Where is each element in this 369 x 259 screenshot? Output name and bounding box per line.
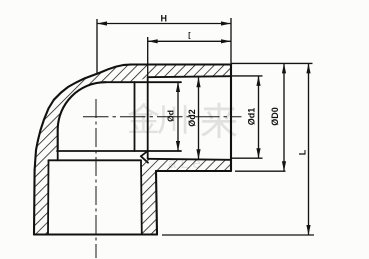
outer arc [35,65,132,171]
outer bottom extension [235,170,286,172]
mouth face right [230,65,232,172]
svg-text:ØD0: ØD0 [270,107,280,126]
l dimension line [148,40,231,42]
watermark glyphs [127,101,238,172]
l right arrow [221,39,231,43]
H right arrow [221,21,231,25]
svg-text:Ød: Ød [166,110,176,122]
socket bottom inner [148,159,231,160]
dim line Ød [177,82,179,151]
material section (hatched) [34,65,231,235]
H extension left [96,19,98,74]
v-socket right inner wall [140,160,143,234]
svg-text:[: [ [188,33,191,40]
dim line L [308,63,310,235]
outer top edge [130,63,231,65]
horizontal centerline [83,116,242,118]
dim line ØD0 [283,63,285,171]
ØD0 arrows [282,63,286,73]
bore top edge + ext [106,81,182,83]
bottom mouth extension [162,234,314,236]
Ød arrows [176,82,180,92]
svg-text:金: 金 [127,101,160,138]
arrowheads [97,21,311,235]
svg-text:H: H [161,14,168,24]
mouth inner bottom extension [231,157,263,159]
socket top inner [148,76,231,77]
l left arrow [148,39,158,43]
bore bottom edge + ext [57,150,181,152]
centerlines [83,99,242,258]
body outline [34,65,231,235]
junction diagonal lower [141,156,148,163]
svg-text:L: L [298,149,308,155]
inner arc [58,82,106,149]
H dimension line [97,23,231,25]
junction diagonal upper [142,151,149,156]
l extension [147,37,149,77]
v-socket left inner wall [47,160,50,234]
junction diamond (white) [135,151,149,161]
dimension graphics [97,18,314,235]
right wall outer [156,171,157,235]
bottom mouth face [34,233,157,235]
svg-text:Ød1: Ød1 [247,108,257,126]
L arrows [306,63,310,73]
v-socket step ring [49,159,142,161]
dim line Ød2 [198,77,200,159]
left wall outer [33,170,36,235]
dim line Ød1 [258,76,260,158]
Ød2 arrows [196,77,200,87]
svg-text:来: 来 [200,102,238,144]
H left arrow [97,21,107,25]
outer bottom edge [156,170,231,172]
step ring x147.7 [147,77,149,159]
svg-text:Ød2: Ød2 [187,109,197,127]
bore ring x134.5 [134,82,136,151]
dimension texts [161,14,308,156]
right mouth extension up [230,18,232,65]
top outer extension [231,62,313,64]
mouth inner top extension [231,75,263,77]
Ød1 arrows [256,76,260,86]
vertical centerline [95,99,97,258]
v-bore left wall [57,149,59,160]
